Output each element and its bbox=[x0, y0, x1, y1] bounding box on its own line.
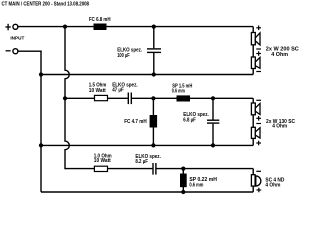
svg-text:100 µF: 100 µF bbox=[117, 53, 130, 59]
svg-text:4 Ohm: 4 Ohm bbox=[271, 52, 288, 58]
svg-text:10 Watt: 10 Watt bbox=[89, 88, 106, 94]
svg-text:10 Watt: 10 Watt bbox=[94, 158, 111, 164]
svg-text:INPUT: INPUT bbox=[10, 35, 24, 40]
svg-text:4 Ohm: 4 Ohm bbox=[272, 124, 288, 130]
svg-text:0.6 mm: 0.6 mm bbox=[189, 183, 203, 189]
svg-text:0.6 mm: 0.6 mm bbox=[172, 88, 185, 94]
svg-text:6.8 µF: 6.8 µF bbox=[183, 117, 196, 123]
svg-text:8.2 µF: 8.2 µF bbox=[135, 159, 148, 165]
svg-text:FC 4.7 mH: FC 4.7 mH bbox=[124, 119, 147, 125]
svg-text:FC 6.8 mH: FC 6.8 mH bbox=[89, 17, 111, 23]
svg-text:47 µF: 47 µF bbox=[112, 88, 124, 94]
svg-text:4 Ohm: 4 Ohm bbox=[265, 183, 281, 189]
svg-text:CT MAIN / CENTER 200 - Stand 1: CT MAIN / CENTER 200 - Stand 13.08.2008 bbox=[2, 2, 90, 8]
